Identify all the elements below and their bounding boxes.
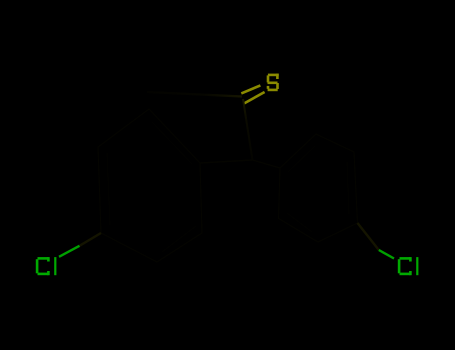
left ring inner aromatic stroke 3 — [162, 226, 196, 252]
atom S label (blocky bitmap-style glyph) — [267, 74, 279, 92]
atom Cl left label (blocky bitmap-style glyphs) — [36, 257, 57, 275]
bond left ring para to Cl : carbon half — [80, 233, 102, 246]
bond C2 to right ring ipso — [253, 160, 281, 168]
atom Cl right label (blocky bitmap-style glyphs) — [398, 257, 419, 275]
double bond C1=S second stroke — [241, 85, 260, 93]
right ring inner aromatic stroke 3 — [287, 213, 312, 232]
double bond C1=S main stroke — [244, 92, 265, 104]
bond left ring para to Cl : green half — [59, 246, 80, 257]
bond C1 to methyl carbon — [147, 92, 242, 97]
bond C2 to left ring ipso — [200, 160, 253, 163]
bond right ring para to Cl : carbon half — [358, 223, 379, 250]
right ring inner aromatic stroke 1 — [288, 146, 315, 172]
right ring inner aromatic stroke 2 — [347, 162, 349, 214]
right benzene ring outline — [279, 134, 358, 242]
bond C1-C2 — [243, 99, 253, 160]
left ring inner aromatic stroke 1 — [152, 122, 192, 164]
left benzene ring outline — [98, 109, 202, 262]
bond right ring para to Cl : green half — [379, 250, 394, 259]
left ring inner aromatic stroke 2 — [107, 153, 110, 225]
